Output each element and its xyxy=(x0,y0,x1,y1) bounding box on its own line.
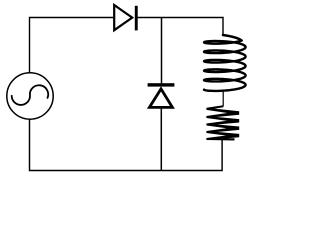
diode D1 triangle xyxy=(114,5,132,30)
AC source V1 sine wave xyxy=(12,85,48,105)
wire top-left: diode anode to AC source top xyxy=(30,18,114,73)
inductor L1 entry swoop xyxy=(223,35,242,41)
wire inductor to resistor xyxy=(222,91,224,106)
wire bottom loop: AC source bottom, bottom rail, riser to resistor xyxy=(30,119,223,170)
wire middle branch upper xyxy=(161,18,163,84)
inductor L1 helix coil xyxy=(204,41,246,91)
diode D1 cathode bar xyxy=(135,6,138,31)
diode D2 cathode bar xyxy=(148,83,175,86)
wire middle branch lower xyxy=(160,109,162,171)
wire top-right: diode cathode to coil top xyxy=(138,18,223,36)
diode D2 triangle xyxy=(149,89,172,108)
resistor R1 zigzag xyxy=(206,105,239,140)
AC source V1 circle xyxy=(7,73,53,119)
